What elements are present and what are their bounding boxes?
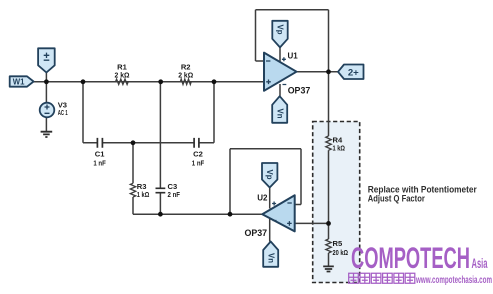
svg-text:20 kΩ: 20 kΩ bbox=[333, 248, 349, 257]
svg-text:1 nF: 1 nF bbox=[93, 158, 106, 167]
svg-text:R5: R5 bbox=[333, 239, 343, 248]
svg-text:Vn: Vn bbox=[276, 109, 285, 119]
svg-text:C1: C1 bbox=[95, 150, 105, 159]
svg-text:Adjust Q Factor: Adjust Q Factor bbox=[368, 192, 425, 203]
svg-text:OP37: OP37 bbox=[288, 85, 311, 96]
svg-text:1 nF: 1 nF bbox=[192, 158, 205, 167]
svg-text:1 kΩ: 1 kΩ bbox=[333, 143, 346, 152]
svg-text:Vp: Vp bbox=[265, 170, 274, 180]
svg-text:OP37: OP37 bbox=[245, 228, 268, 239]
svg-text:www.compotechasia.com: www.compotechasia.com bbox=[415, 274, 492, 286]
svg-text:Vn: Vn bbox=[267, 253, 276, 263]
svg-text:1 kΩ: 1 kΩ bbox=[137, 190, 150, 199]
svg-text:Vp: Vp bbox=[275, 25, 284, 35]
svg-text:COMPOTECH: COMPOTECH bbox=[351, 242, 470, 275]
svg-text:2+: 2+ bbox=[348, 67, 359, 78]
svg-text:Asia: Asia bbox=[472, 256, 488, 271]
svg-text:2 nF: 2 nF bbox=[168, 190, 181, 199]
svg-text:2 kΩ: 2 kΩ bbox=[115, 70, 130, 79]
svg-text:U1: U1 bbox=[288, 51, 299, 60]
svg-text:C2: C2 bbox=[193, 150, 203, 159]
svg-text:U2: U2 bbox=[257, 194, 268, 203]
svg-text:W1: W1 bbox=[13, 77, 25, 86]
svg-text:AC 1: AC 1 bbox=[58, 108, 68, 117]
svg-text:2 kΩ: 2 kΩ bbox=[178, 70, 193, 79]
